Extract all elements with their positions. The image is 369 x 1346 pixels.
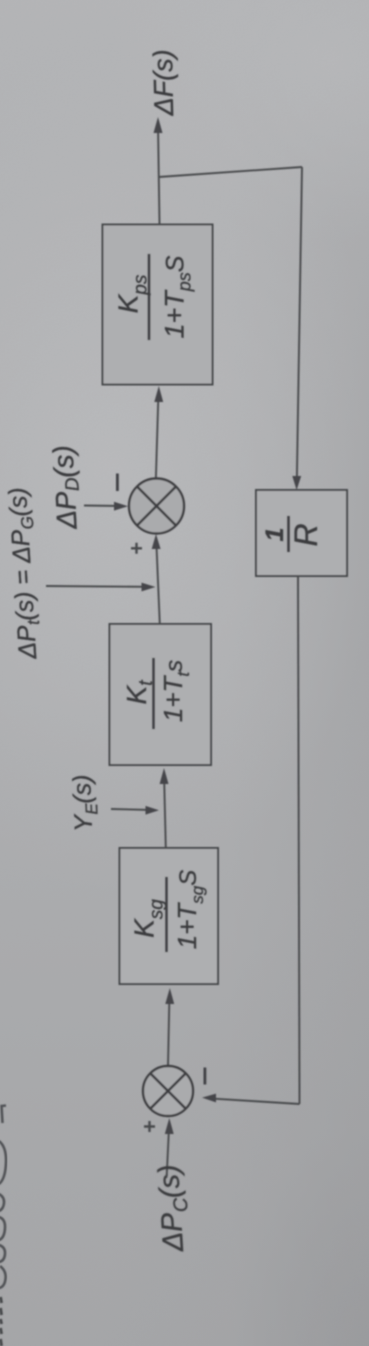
fragment: large open curve [0,1141,6,1184]
sign: plus at S2 [144,1121,155,1132]
svg-text:ΔF(s): ΔF(s) [148,49,179,117]
sign: minus at S2 [204,1068,207,1085]
wire: Ksg output to Kt input [164,781,166,848]
wire: Kt output up to S1 [157,546,160,624]
wire: feedback right vertical (top) [297,167,302,483]
label 1/R fraction [261,516,324,552]
sign: minus at S1 [116,474,119,492]
fragment: edge dashes [1,1297,2,1346]
arrowhead dPc into S2 [165,1118,174,1134]
wire: junction1 to Kps input [156,398,159,481]
svg-text:1+TsgS: 1+TsgS [172,870,207,950]
label Kps fraction [113,254,195,340]
wire: S2 output up to Ksg input [168,1002,169,1066]
fragment: small curve [0,1194,4,1211]
fragment: stroke with top bar [2,1106,7,1124]
arrowhead into Kps [154,386,163,402]
label Ksg fraction [129,870,208,952]
wire: feedback top horizontal [159,167,302,177]
summing junction S2 (dPc / feedback) [143,1066,193,1116]
arrowhead into Ksg [165,988,174,1004]
wire: Ye(s) pointer arrow [111,809,152,810]
arrowhead into Kt [160,768,169,784]
block U4: 1/R droop feedback [256,490,347,576]
svg-text:1+Tts: 1+Tts [158,660,193,722]
wire: output line from Kps block to dF arrow [158,125,160,224]
fragment: g loop lower [0,1266,6,1288]
wire: dPd(s) input arrow [84,505,121,508]
cut-off page text fragments at left edge [0,1106,6,1346]
wire: dPc(s) input [167,1130,169,1176]
sign: plus at S1 [131,543,142,554]
label Kt fraction [121,658,193,729]
block U3: Kps/(1+Tps s) power system [103,225,213,385]
block U2: Kt/(1+Tt s) turbine [110,624,212,765]
svg-text:1: 1 [261,528,289,542]
arrowhead output dF(s) [154,117,163,133]
wire: dPt(s)=dPg(s) pointer line [46,585,148,588]
arrowhead feedback into S2 [202,1094,216,1103]
arrowhead into S1 bottom [152,534,161,549]
fragment: g loop upper [0,1245,5,1262]
svg-text:R: R [288,523,324,546]
summing junction S1 (dPd) [129,479,184,534]
arrowhead of Ye pointer [146,806,160,815]
text labels (rotated 90 ccw) [4,49,324,1253]
block U1: Ksg/(1+Tsg s) speed governor [120,848,219,984]
wire: feedback bottom horizontal [210,1098,300,1104]
wire: feedback right vertical (bottom) [298,576,300,1104]
arrowhead into 1/R block [292,476,301,490]
fragment: u curve [0,1217,5,1240]
arrowhead dPd into S1 [114,502,128,511]
svg-text:1+TpsS: 1+TpsS [160,255,195,338]
arrowhead of dPt pointer [142,583,156,592]
